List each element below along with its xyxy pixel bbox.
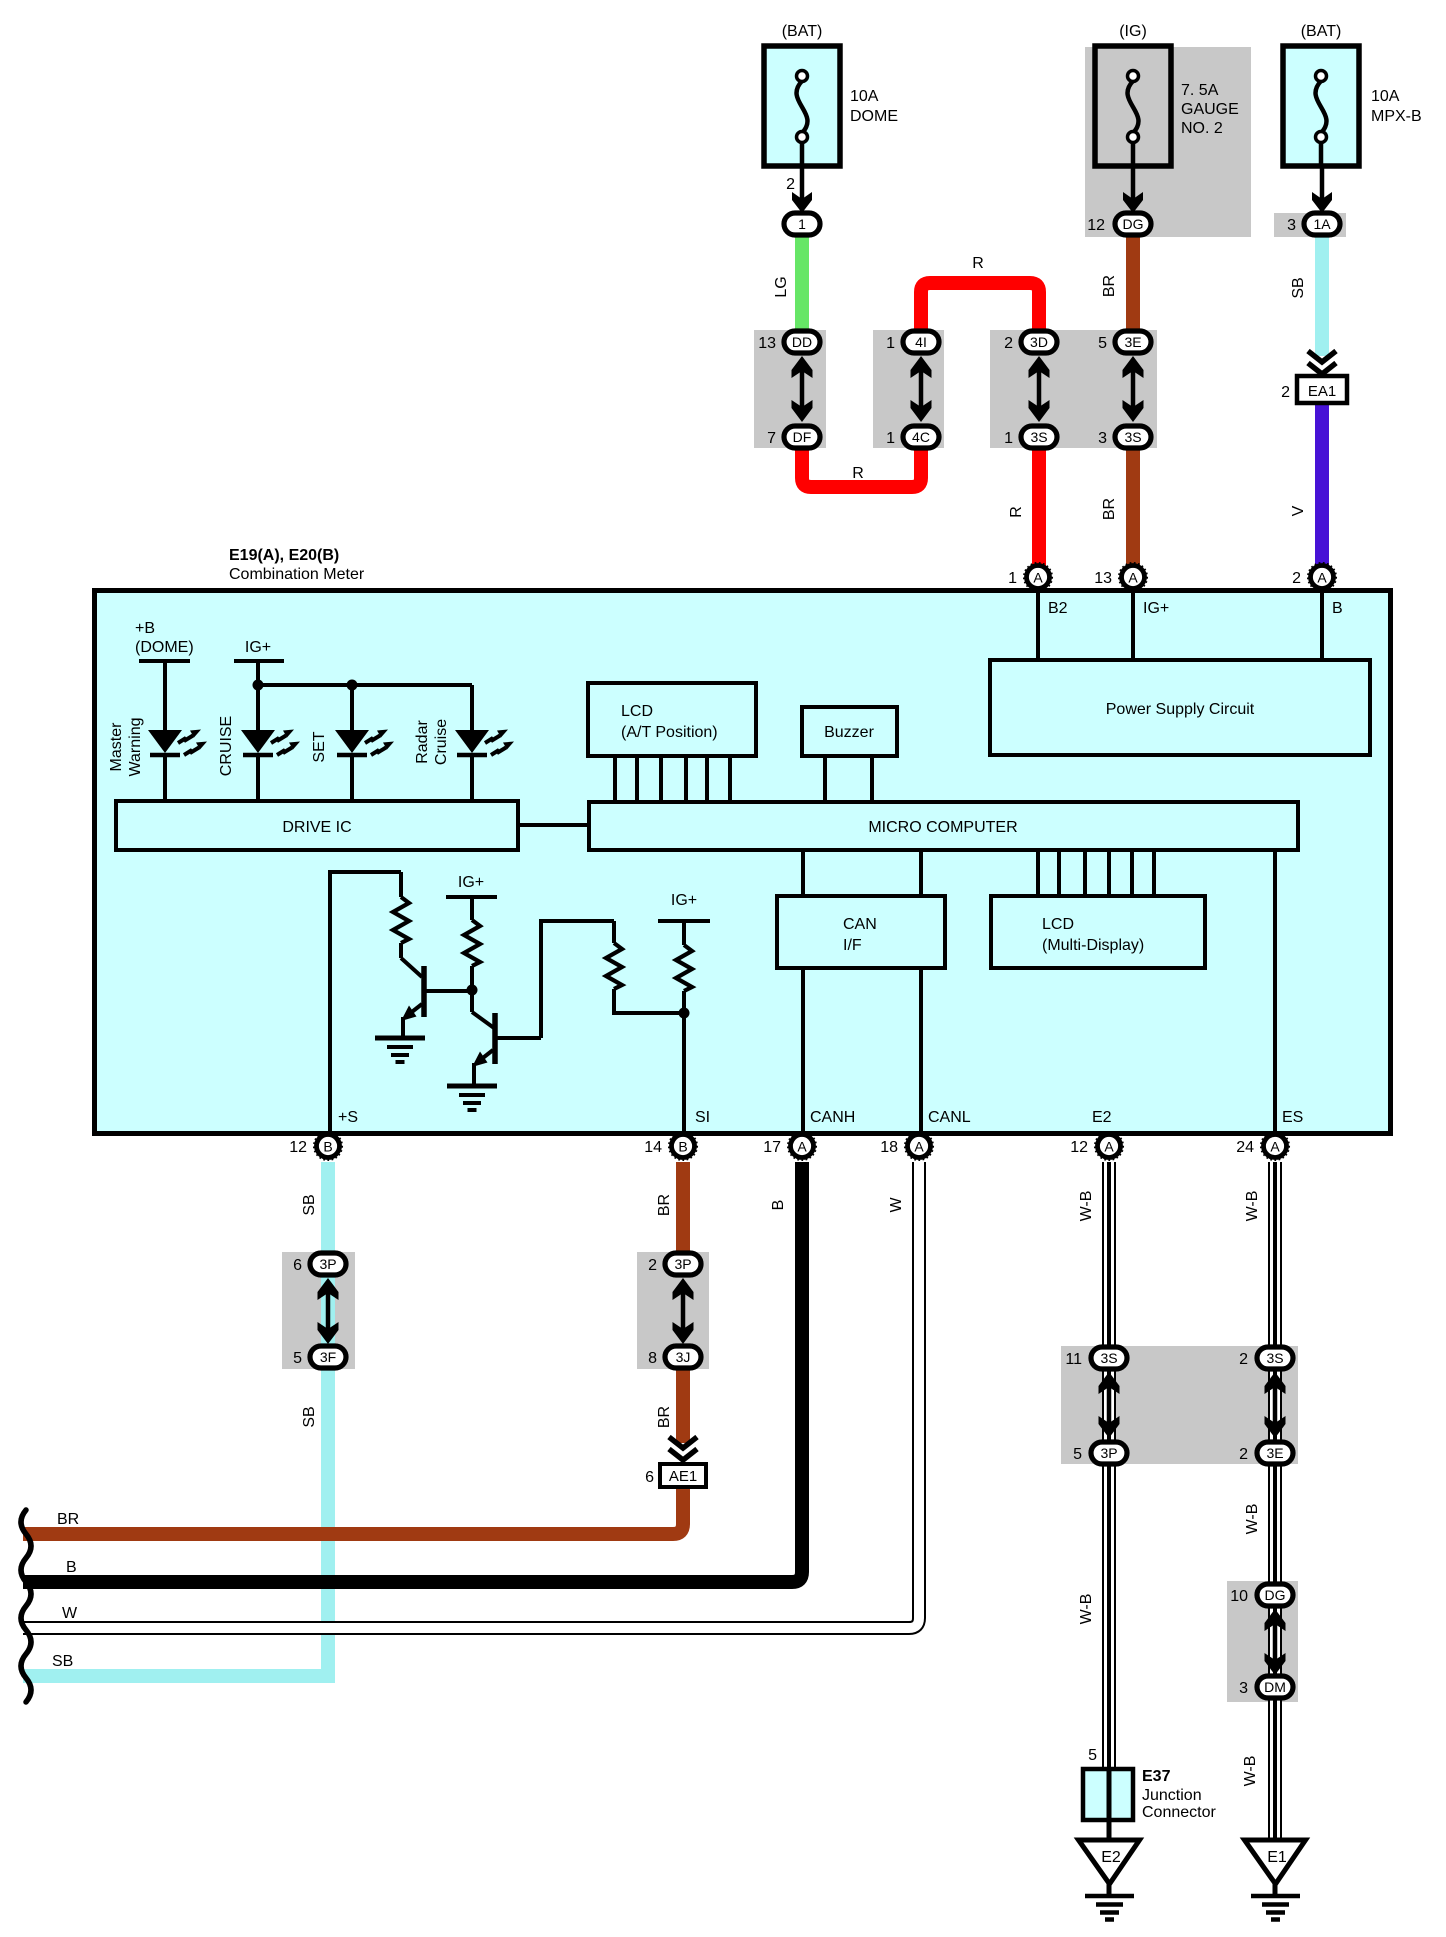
junction arrow DD-DF (792, 356, 813, 422)
wire CANL (919, 968, 923, 1133)
connector DF pin 7 (767, 426, 820, 448)
svg-text:1A: 1A (1313, 216, 1331, 232)
CAN I/F box (777, 896, 945, 968)
svg-text:DD: DD (792, 334, 812, 350)
svg-text:W-B: W-B (1244, 1504, 1261, 1535)
meter pin 14 B (644, 1132, 697, 1160)
svg-text:8: 8 (648, 1350, 657, 1367)
svg-text:3P: 3P (674, 1256, 691, 1272)
junction connector E37 (1083, 1747, 1133, 1840)
net B2 into power supply (1036, 592, 1040, 660)
svg-text:Combination Meter: Combination Meter (229, 566, 365, 583)
connector 3P pin 6 (293, 1253, 346, 1275)
svg-text:GAUGE: GAUGE (1181, 101, 1239, 118)
svg-text:1: 1 (886, 335, 895, 352)
wire SB meter pin 12B to harness left (321, 1162, 335, 1683)
svg-text:B: B (770, 1200, 787, 1211)
svg-text:3: 3 (1287, 217, 1296, 234)
wire BR segment 3S to meter pin 13A (1126, 437, 1140, 570)
wire W-B meter pin 12A to ground E2 via E37 (1102, 1162, 1116, 1769)
svg-text:W-B: W-B (1078, 1191, 1095, 1222)
svg-text:A: A (1270, 1139, 1280, 1155)
wire drive IC to micro computer (518, 823, 589, 827)
fuse wire into connector 1A (1312, 166, 1332, 213)
svg-text:CANL: CANL (928, 1109, 971, 1126)
fuse 10A MPX-B (1283, 46, 1359, 166)
svg-text:18: 18 (880, 1139, 898, 1156)
resistor R4 (676, 945, 692, 991)
svg-text:7. 5A: 7. 5A (1181, 82, 1219, 99)
fuse wire into connector DG (1123, 166, 1143, 213)
LCD multi pins (1036, 850, 1040, 896)
svg-text:IG+: IG+ (245, 639, 271, 656)
svg-text:NO. 2: NO. 2 (1181, 120, 1223, 137)
svg-text:B2: B2 (1048, 600, 1068, 617)
LED CRUISE (241, 730, 300, 756)
svg-text:12: 12 (289, 1139, 307, 1156)
svg-text:A: A (1317, 570, 1327, 586)
resistor R3 (612, 921, 616, 943)
svg-text:12: 12 (1070, 1139, 1088, 1156)
buzzer pins (823, 756, 827, 802)
svg-text:10A: 10A (1371, 88, 1400, 105)
svg-text:5: 5 (1073, 1446, 1082, 1463)
net B into power supply (1320, 592, 1324, 660)
meter pin 13 A (IG+) (1094, 563, 1147, 591)
svg-text:DM: DM (1264, 1679, 1286, 1695)
wire to Radar Cruise LED (470, 685, 474, 730)
fuse 7.5A GAUGE NO.2 (1095, 46, 1171, 166)
junction arrow DG-DM (1265, 1609, 1286, 1675)
chevron into AE1 (669, 1437, 697, 1460)
svg-text:3S: 3S (1124, 429, 1141, 445)
chevron into EA1 (1308, 351, 1336, 374)
svg-text:10: 10 (1230, 1588, 1248, 1605)
svg-text:SI: SI (695, 1109, 710, 1126)
shield area behind connectors 3P/3J (637, 1252, 709, 1369)
wire SB fuse MPX-B to EA1 (1315, 224, 1329, 356)
svg-text:DOME: DOME (850, 108, 898, 125)
meter pin 12 A (1070, 1132, 1123, 1160)
svg-text:Junction: Junction (1142, 1787, 1202, 1804)
junction arrow 3E-3S (1123, 356, 1144, 422)
svg-text:LCD: LCD (621, 703, 653, 720)
wire +B to LED (163, 661, 167, 730)
svg-text:Connector: Connector (1142, 1804, 1216, 1821)
meter pin 17 A (763, 1132, 816, 1160)
svg-text:SB: SB (52, 1653, 73, 1670)
connector AE1 pin 6 (645, 1464, 706, 1487)
wire ES from micro (1273, 850, 1277, 1133)
wire to SET LED (350, 685, 354, 730)
svg-text:AE1: AE1 (669, 1468, 697, 1485)
shield area behind connectors 3P/3F (282, 1252, 355, 1369)
connector 1 below DOME fuse (784, 213, 820, 235)
svg-text:12: 12 (1087, 217, 1105, 234)
connector DG pin 10 (1230, 1584, 1293, 1606)
wire R segment DF to 4C (802, 437, 921, 487)
connector 3D pin 2 (1004, 331, 1057, 353)
svg-text:SB: SB (301, 1406, 318, 1427)
svg-text:17: 17 (763, 1139, 781, 1156)
wire LED Radar Cruise to drive IC (470, 757, 474, 801)
svg-text:E2: E2 (1092, 1109, 1112, 1126)
svg-text:2: 2 (1004, 335, 1013, 352)
svg-text:+S: +S (338, 1109, 358, 1126)
LED Master Warning (148, 730, 207, 756)
wire BR 3J to AE1 (676, 1357, 690, 1443)
svg-text:1: 1 (798, 216, 806, 232)
svg-text:3J: 3J (676, 1349, 691, 1365)
wire CANH (801, 968, 805, 1133)
svg-text:W-B: W-B (1242, 1756, 1259, 1787)
wire BR segment DG to 3E (1126, 224, 1140, 342)
svg-text:2: 2 (1239, 1446, 1248, 1463)
svg-text:A: A (797, 1139, 807, 1155)
shield area behind connectors DD/DF (754, 330, 826, 448)
svg-text:3P: 3P (1100, 1445, 1117, 1461)
svg-text:3F: 3F (320, 1349, 336, 1365)
svg-text:IG+: IG+ (1143, 600, 1169, 617)
wire B meter pin 17A to harness left (23, 1162, 802, 1582)
svg-text:EA1: EA1 (1308, 383, 1336, 400)
svg-text:2: 2 (1292, 570, 1301, 587)
svg-text:LG: LG (773, 276, 790, 297)
svg-text:(BAT): (BAT) (1301, 23, 1342, 40)
power supply circuit box (990, 660, 1370, 755)
wire BR AE1 to harness left (23, 1487, 683, 1534)
connector 3P pin 2 (648, 1253, 701, 1275)
svg-text:DG: DG (1123, 216, 1144, 232)
svg-text:B: B (66, 1559, 77, 1576)
connector 3E pin 2 (1239, 1442, 1293, 1464)
shield area behind connectors 4I/4C (873, 330, 944, 448)
junction dot (253, 680, 264, 691)
svg-text:2: 2 (1239, 1351, 1248, 1368)
svg-text:A: A (914, 1139, 924, 1155)
junction arrow 3P-3F (318, 1278, 339, 1344)
svg-text:Cruise: Cruise (433, 719, 450, 765)
connector 3S pin 1 (1004, 426, 1057, 448)
svg-text:2: 2 (648, 1257, 657, 1274)
svg-text:IG+: IG+ (458, 874, 484, 891)
wire R segment 4I to 3D (921, 283, 1039, 342)
svg-text:Warning: Warning (127, 718, 144, 777)
svg-text:BR: BR (656, 1194, 673, 1216)
svg-text:B: B (678, 1139, 687, 1155)
connector 4I pin 1 (886, 331, 939, 353)
svg-text:1: 1 (1008, 570, 1017, 587)
junction arrow 3S-3P (1099, 1372, 1120, 1438)
junction arrow 3S-3E (1265, 1372, 1286, 1438)
svg-text:5: 5 (1088, 1747, 1097, 1764)
LCD (Multi-Display) box (991, 896, 1205, 968)
LCD pins (613, 756, 617, 802)
svg-text:A: A (1128, 570, 1138, 586)
wire LED CRUISE to drive IC (256, 757, 260, 801)
svg-text:BR: BR (57, 1511, 79, 1528)
svg-text:(Multi-Display): (Multi-Display) (1042, 937, 1144, 954)
svg-text:DRIVE IC: DRIVE IC (282, 819, 351, 836)
svg-text:5: 5 (293, 1350, 302, 1367)
svg-text:BR: BR (1101, 498, 1118, 520)
svg-text:E19(A), E20(B): E19(A), E20(B) (229, 547, 339, 564)
wire SI to meter pin 14B (682, 991, 686, 1133)
svg-text:3E: 3E (1124, 334, 1141, 350)
svg-text:A: A (1033, 570, 1043, 586)
svg-text:3: 3 (1239, 1680, 1248, 1697)
svg-text:3S: 3S (1266, 1350, 1283, 1366)
svg-text:CAN: CAN (843, 916, 877, 933)
junction dot R3/R4/SI (679, 1008, 690, 1019)
svg-text:1: 1 (1004, 430, 1013, 447)
svg-text:DF: DF (793, 429, 812, 445)
svg-text:R: R (972, 255, 984, 272)
svg-text:B: B (1332, 600, 1343, 617)
connector 1A pin 3 (1287, 213, 1340, 235)
connector 3S pin 11 (1065, 1347, 1127, 1369)
svg-text:5: 5 (1098, 335, 1107, 352)
svg-text:14: 14 (644, 1139, 662, 1156)
buzzer box (802, 707, 897, 756)
svg-text:2: 2 (786, 176, 795, 193)
svg-text:2: 2 (1281, 384, 1290, 401)
shield area behind connectors 3S/3P and 3S/3E (1061, 1346, 1298, 1464)
svg-text:R: R (852, 465, 864, 482)
svg-text:V: V (1290, 505, 1307, 516)
svg-text:CRUISE: CRUISE (218, 716, 235, 776)
svg-text:E1: E1 (1267, 1849, 1287, 1866)
svg-text:3S: 3S (1030, 429, 1047, 445)
svg-text:E37: E37 (1142, 1768, 1171, 1785)
svg-text:Master: Master (108, 722, 125, 772)
shield area behind connectors 3D/3S/3E/3S (990, 330, 1157, 448)
micro computer box (589, 802, 1298, 850)
svg-text:CANH: CANH (810, 1109, 855, 1126)
svg-text:DG: DG (1265, 1587, 1286, 1603)
ground Q2 emitter (447, 1086, 497, 1110)
wire BR meter pin 14B to 3P (676, 1162, 690, 1264)
connector EA1 pin 2 (1281, 376, 1347, 403)
svg-text:4C: 4C (912, 429, 930, 445)
svg-text:IG+: IG+ (671, 892, 697, 909)
LED Radar Cruise (455, 730, 514, 756)
meter pin 12 B (289, 1132, 342, 1160)
svg-text:(DOME): (DOME) (135, 639, 194, 656)
svg-text:BR: BR (656, 1406, 673, 1428)
meter pin 2 A (B) (1292, 563, 1336, 591)
junction arrow 3D-3S (1029, 356, 1050, 422)
svg-text:7: 7 (767, 430, 776, 447)
connector DM pin 3 (1239, 1676, 1293, 1698)
svg-text:3D: 3D (1030, 334, 1048, 350)
LED SET (335, 730, 394, 756)
wire W meter pin 18A to harness left (23, 1162, 919, 1628)
svg-text:(BAT): (BAT) (782, 23, 823, 40)
wire IG+ bus (256, 661, 260, 730)
svg-text:I/F: I/F (843, 937, 862, 954)
svg-text:(IG): (IG) (1119, 23, 1147, 40)
svg-text:ES: ES (1282, 1109, 1303, 1126)
svg-text:Power Supply Circuit: Power Supply Circuit (1106, 701, 1255, 718)
junction dot (347, 680, 358, 691)
svg-text:6: 6 (293, 1257, 302, 1274)
svg-text:6: 6 (645, 1469, 654, 1486)
meter pin 24 A (1236, 1132, 1289, 1160)
svg-text:1: 1 (886, 430, 895, 447)
svg-text:SET: SET (311, 731, 328, 762)
svg-text:BR: BR (1101, 275, 1118, 297)
svg-text:Radar: Radar (414, 720, 431, 764)
svg-text:E2: E2 (1101, 1849, 1121, 1866)
meter pin 1 A (B2) (1008, 563, 1052, 591)
meter pin 18 A (880, 1132, 933, 1160)
ground E2 (1079, 1840, 1140, 1920)
connector 3F pin 5 (293, 1346, 346, 1368)
junction arrow 3P-3J (673, 1278, 694, 1344)
svg-text:A: A (1104, 1139, 1114, 1155)
svg-text:SB: SB (301, 1194, 318, 1215)
svg-text:(A/T Position): (A/T Position) (621, 724, 718, 741)
fuse wire into connector 1 (792, 166, 812, 213)
harness entry squiggle (21, 1510, 31, 1702)
transistor circuit: +S line (330, 872, 401, 1133)
svg-text:3E: 3E (1266, 1445, 1283, 1461)
svg-text:3: 3 (1098, 430, 1107, 447)
junction dot Q1 base / R2 / Q2 collector (467, 985, 478, 996)
wire V segment EA1 to meter pin 2A (1315, 403, 1329, 570)
connector 4C pin 1 (886, 426, 939, 448)
svg-text:+B: +B (135, 620, 155, 637)
shield area behind connectors DG/DM (1227, 1581, 1298, 1702)
wire W-B meter pin 24A to ground E1 (1268, 1162, 1282, 1840)
svg-text:B: B (323, 1139, 332, 1155)
ground Q1 emitter (375, 1038, 425, 1062)
svg-text:R: R (1008, 506, 1025, 518)
resistor R1 (399, 872, 403, 897)
transistor Q2 (472, 1012, 541, 1086)
ground E1 (1245, 1840, 1306, 1920)
svg-text:W: W (62, 1605, 78, 1622)
fuse 10A DOME (764, 46, 840, 166)
LCD (A/T Position) box (588, 683, 756, 756)
svg-text:LCD: LCD (1042, 916, 1074, 933)
svg-text:13: 13 (1094, 570, 1112, 587)
svg-text:24: 24 (1236, 1139, 1254, 1156)
wire LED Master Warning to drive IC (163, 757, 167, 801)
CAN I/F pins to micro (801, 850, 805, 896)
wire LED SET to drive IC (350, 757, 354, 801)
svg-text:11: 11 (1065, 1351, 1082, 1368)
connector 3E pin 5 (1098, 331, 1151, 353)
wire Q2 base to R3 (541, 921, 614, 1038)
connector 3S pin 2 (1239, 1347, 1293, 1369)
connector 3P pin 5 (1073, 1442, 1127, 1464)
shield area behind GAUGE fuse (1085, 47, 1251, 237)
connector 3S pin 3 (1098, 426, 1151, 448)
svg-text:W: W (888, 1197, 905, 1213)
shield area behind connector 1A (1274, 213, 1346, 237)
net IG+ into power supply (1131, 592, 1135, 660)
svg-text:Buzzer: Buzzer (824, 724, 874, 741)
transistor Q1 (401, 958, 471, 1038)
svg-text:13: 13 (758, 335, 776, 352)
svg-text:10A: 10A (850, 88, 879, 105)
wire LG fuse DOME to DD (795, 224, 809, 342)
svg-text:MICRO COMPUTER: MICRO COMPUTER (868, 819, 1017, 836)
svg-text:MPX-B: MPX-B (1371, 108, 1422, 125)
drive IC box (116, 801, 518, 850)
svg-text:W-B: W-B (1244, 1191, 1261, 1222)
combination meter E19(A)/E20(B) body (95, 591, 1391, 1134)
wire R segment 3S to meter pin 1A (1032, 437, 1046, 570)
connector DD pin 13 (758, 331, 820, 353)
connector DG pin 12 (1087, 213, 1151, 235)
svg-text:W-B: W-B (1078, 1594, 1095, 1625)
svg-text:3P: 3P (319, 1256, 336, 1272)
svg-text:SB: SB (1290, 277, 1307, 298)
connector 3J pin 8 (648, 1346, 701, 1368)
resistor R2 (464, 920, 480, 966)
junction arrow 4I-4C (911, 356, 932, 422)
svg-text:4I: 4I (915, 334, 927, 350)
svg-text:3S: 3S (1100, 1350, 1117, 1366)
